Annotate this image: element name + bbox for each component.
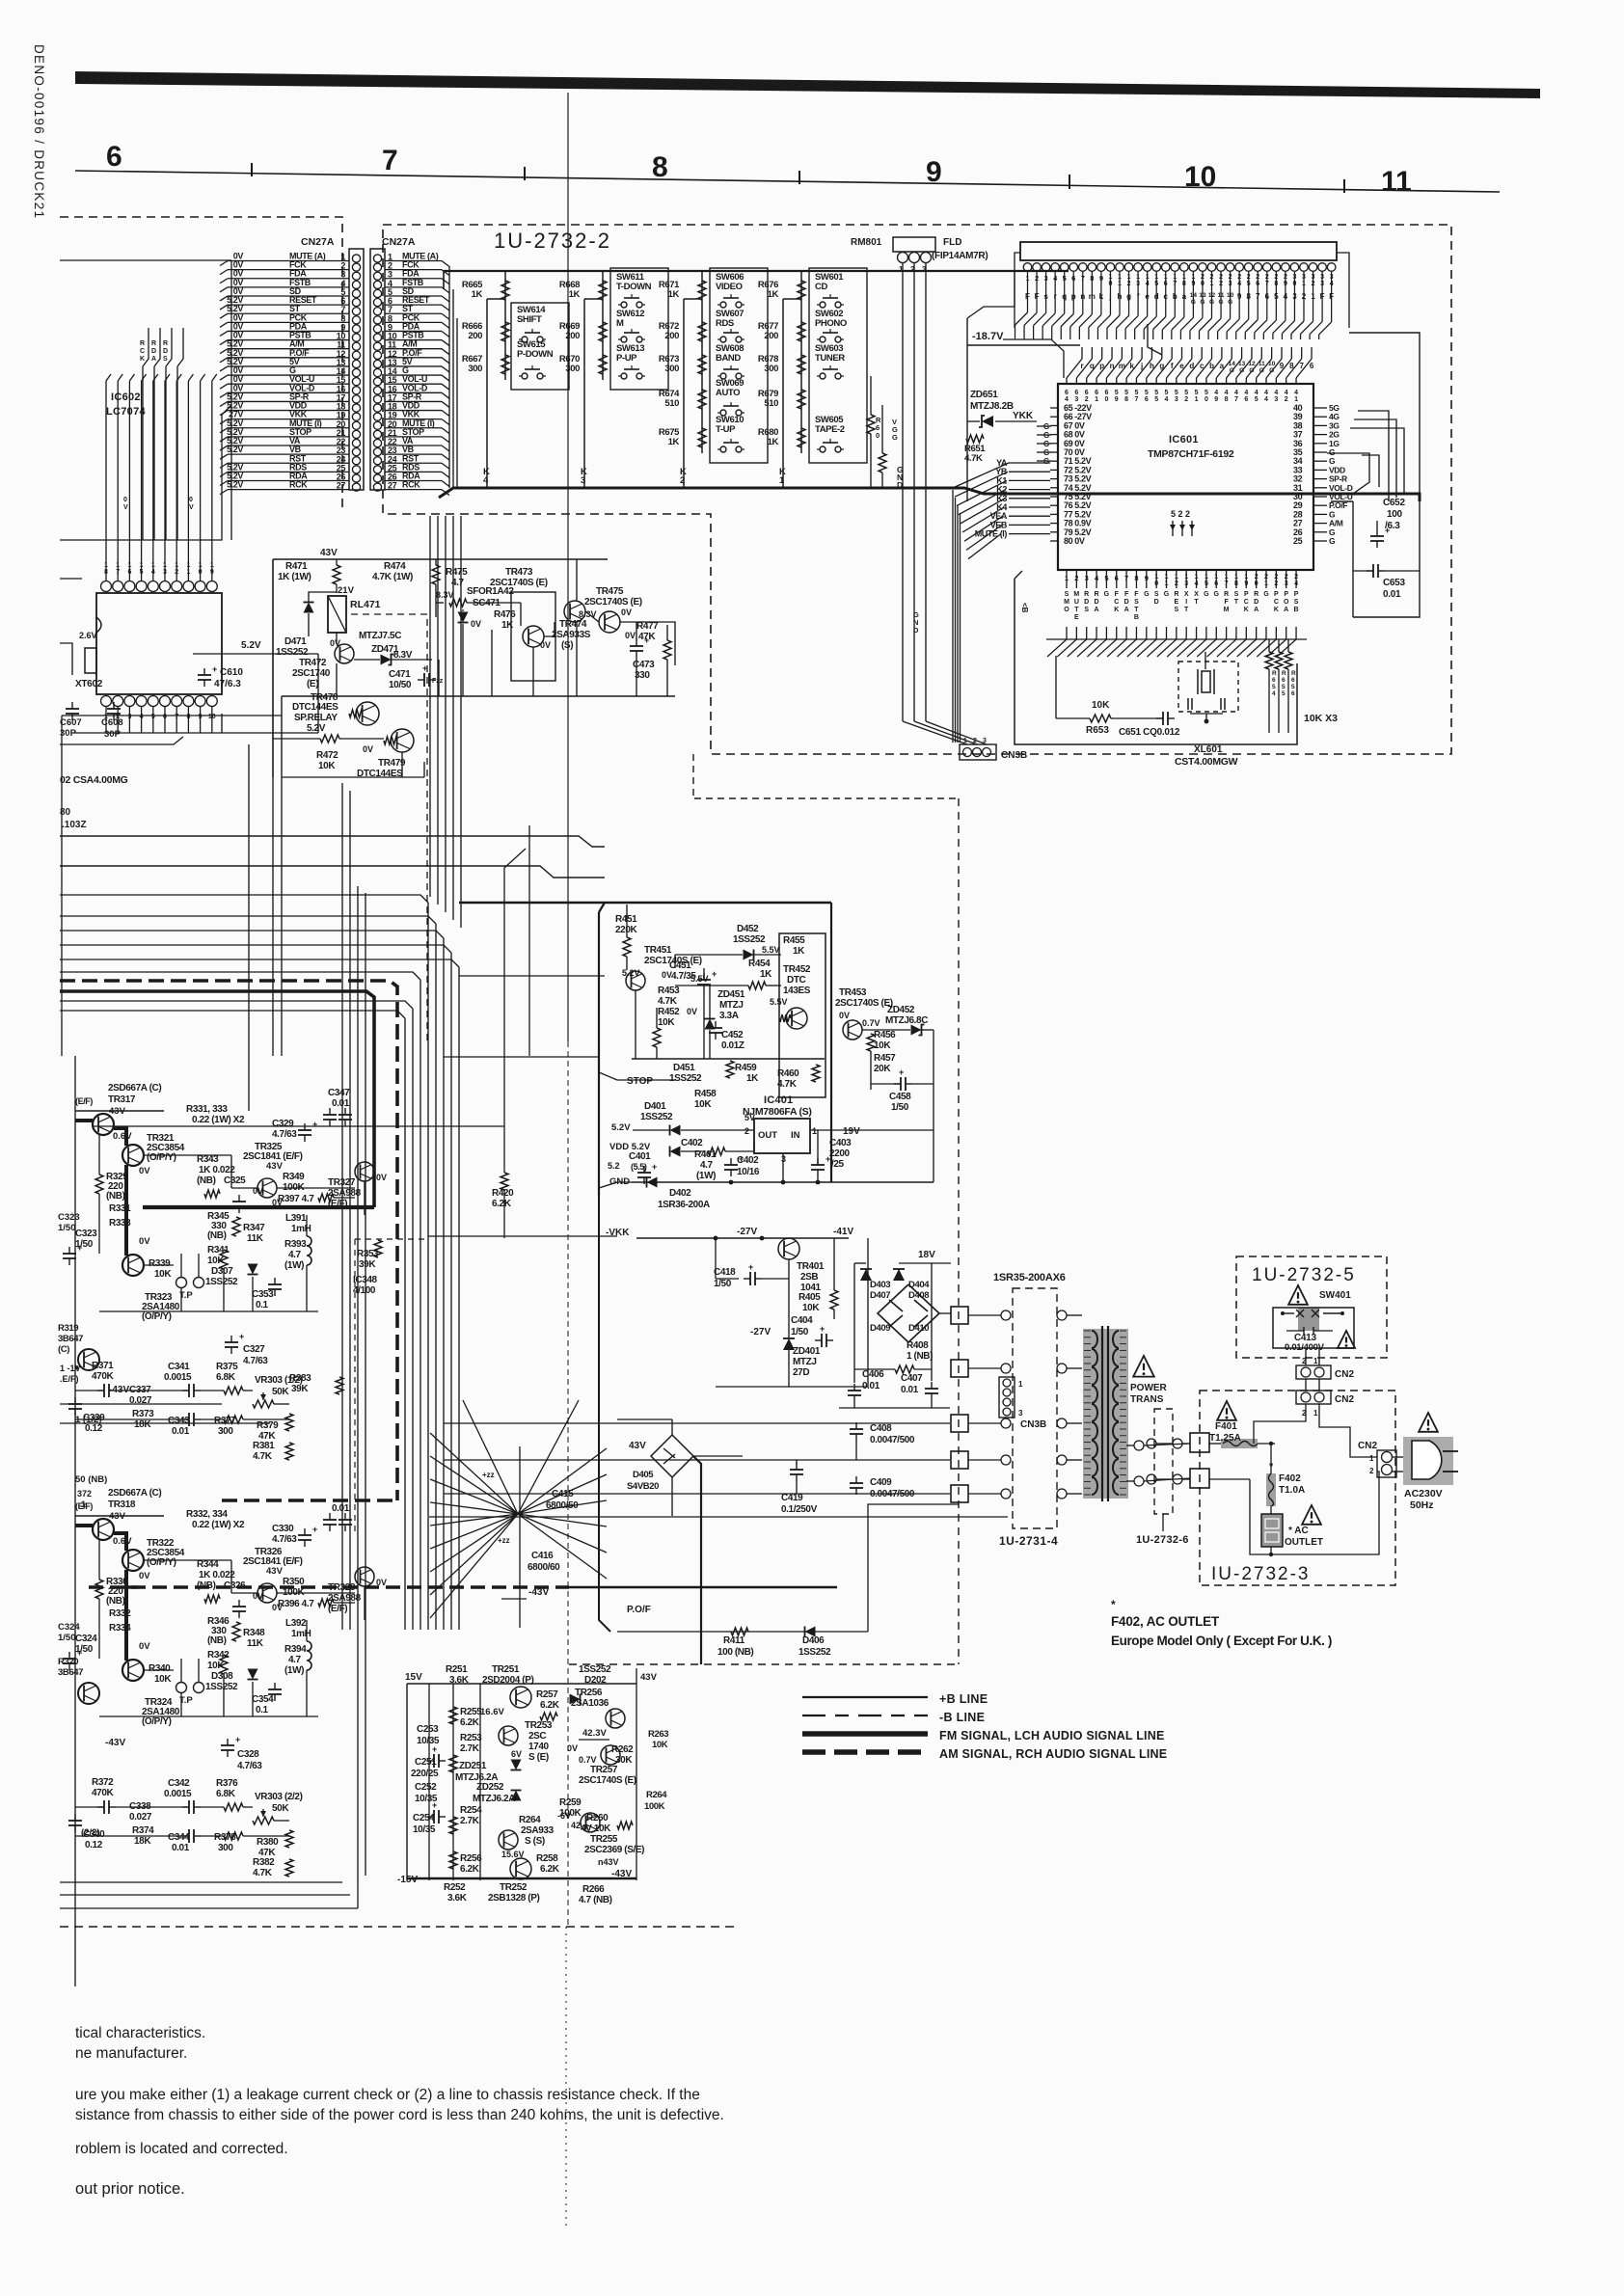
svg-text:TR453: TR453 — [839, 987, 867, 998]
svg-text:2.7K: 2.7K — [460, 1743, 480, 1754]
svg-text:R375: R375 — [216, 1362, 238, 1372]
svg-text:10: 10 — [1184, 161, 1216, 193]
svg-text:F: F — [1115, 591, 1120, 598]
svg-text:4: 4 — [1294, 390, 1298, 396]
svg-text:100 (NB): 100 (NB) — [717, 1647, 753, 1658]
test points T.P — [176, 1278, 187, 1288]
svg-text:TR253: TR253 — [525, 1720, 553, 1731]
power section mid bus — [632, 1058, 825, 1060]
svg-text:RCK: RCK — [402, 480, 420, 490]
dashed border bottom amp — [60, 1926, 738, 1928]
svg-text:E: E — [1074, 614, 1079, 621]
svg-text:+: + — [235, 1735, 240, 1744]
svg-text:0V: 0V — [376, 1173, 387, 1182]
svg-text:b: b — [1209, 362, 1214, 370]
svg-text:0V: 0V — [687, 1007, 697, 1016]
svg-text:50 (NB): 50 (NB) — [75, 1474, 107, 1485]
svg-text:C652: C652 — [1383, 498, 1405, 508]
svg-text:1K: 1K — [569, 289, 581, 300]
svg-text:+: + — [712, 969, 717, 979]
svg-text:-41V: -41V — [833, 1227, 853, 1237]
svg-text:P-UP: P-UP — [616, 353, 637, 364]
svg-text:R: R — [1291, 670, 1296, 677]
svg-text:11: 11 — [1381, 166, 1412, 198]
amp block wires — [75, 1111, 365, 1311]
svg-text:R453: R453 — [658, 986, 680, 996]
top separator bar — [75, 71, 1540, 98]
IC601 upper fan signal letters — [1080, 361, 1313, 374]
svg-text:D: D — [163, 348, 168, 355]
wire RH801 leads — [903, 262, 987, 744]
svg-text:0V: 0V — [139, 1236, 150, 1247]
svg-text:C458: C458 — [889, 1092, 911, 1102]
svg-text:6: 6 — [1244, 396, 1248, 403]
capacitor C458 1/50 — [900, 1077, 902, 1091]
svg-text:C328: C328 — [237, 1749, 259, 1760]
svg-text:A: A — [1284, 607, 1288, 613]
svg-text:2SC: 2SC — [528, 1731, 546, 1742]
svg-text:1K: 1K — [501, 620, 514, 631]
svg-text:R: R — [1084, 591, 1089, 598]
svg-text:+: + — [77, 1243, 82, 1253]
svg-text:C403: C403 — [829, 1138, 852, 1148]
svg-text:6: 6 — [1095, 390, 1098, 396]
svg-text:DTC: DTC — [787, 975, 806, 986]
svg-text:-43V: -43V — [105, 1738, 125, 1748]
svg-text:F: F — [1134, 591, 1139, 598]
svg-text:0.01: 0.01 — [332, 1098, 350, 1109]
svg-text:6: 6 — [1085, 390, 1089, 396]
svg-text:0V: 0V — [330, 638, 340, 648]
svg-text:D408: D408 — [908, 1290, 929, 1301]
svg-text:300: 300 — [764, 364, 778, 374]
svg-text:K: K — [1244, 607, 1249, 613]
svg-text:80 0V: 80 0V — [1064, 536, 1085, 546]
svg-text:P: P — [1244, 591, 1249, 598]
svg-text:5: 5 — [1291, 684, 1295, 690]
svg-text:7: 7 — [382, 145, 398, 176]
svg-text:30P: 30P — [104, 729, 122, 740]
svg-text:5: 5 — [1272, 684, 1276, 690]
transistor TR252 2SB1328 (P) — [510, 1858, 531, 1879]
svg-text:1: 1 — [1313, 1357, 1318, 1365]
svg-text:2SC1740S (E): 2SC1740S (E) — [835, 998, 893, 1009]
svg-text:M: M — [1224, 607, 1230, 613]
svg-text:4: 4 — [1214, 390, 1218, 396]
wire IC601 right wrap bus — [1148, 324, 1404, 501]
svg-text:200: 200 — [664, 331, 679, 341]
svg-text:5.2V: 5.2V — [611, 1122, 631, 1133]
svg-text:R262: R262 — [611, 1744, 634, 1755]
svg-text:6.2K: 6.2K — [460, 1717, 480, 1728]
svg-text:S: S — [1084, 607, 1089, 613]
svg-text:5: 5 — [1145, 390, 1149, 396]
svg-text:02 CSA4.00MG: 02 CSA4.00MG — [60, 774, 128, 786]
svg-text:ZD251: ZD251 — [459, 1761, 487, 1771]
svg-text:300: 300 — [468, 364, 482, 374]
svg-text:G: G — [1204, 591, 1209, 598]
transistor TR323 2SA1480 (O/P/Y) — [122, 1255, 144, 1276]
svg-text:220/25: 220/25 — [411, 1769, 439, 1779]
warning triangle AC outlet — [1302, 1505, 1321, 1525]
svg-text:6800/50: 6800/50 — [546, 1500, 579, 1511]
svg-text:D471: D471 — [284, 636, 307, 647]
svg-text:1K: 1K — [746, 1073, 759, 1084]
dashed border power board bottom — [569, 1663, 959, 1665]
wire bottom area horizontals — [60, 1404, 358, 1908]
svg-text:2.6V: 2.6V — [79, 631, 97, 640]
svg-text:S: S — [1065, 591, 1069, 598]
svg-text:1K 0.022: 1K 0.022 — [199, 1570, 235, 1580]
svg-text:VR303 (1/2): VR303 (1/2) — [255, 1375, 303, 1386]
svg-text:D: D — [897, 480, 903, 490]
svg-text:8: 8 — [1225, 396, 1229, 403]
svg-text:ure you make either (1) a leak: ure you make either (1) a leakage curren… — [75, 2087, 700, 2103]
svg-text:0.6V: 0.6V — [113, 1536, 132, 1547]
svg-text:TR251: TR251 — [492, 1664, 520, 1675]
svg-text:R471: R471 — [285, 561, 308, 572]
svg-text:D: D — [1124, 599, 1129, 606]
svg-text:+B LINE: +B LINE — [939, 1692, 988, 1706]
svg-text:S4VB20: S4VB20 — [627, 1481, 659, 1492]
svg-text:(E/F): (E/F) — [328, 1604, 347, 1614]
svg-text:TMP87CH71F-6192: TMP87CH71F-6192 — [1148, 448, 1234, 460]
svg-text:5.5V: 5.5V — [762, 945, 780, 955]
svg-text:43V: 43V — [629, 1441, 646, 1451]
svg-text:roblem is located and correcte: roblem is located and corrected. — [75, 2141, 288, 2157]
svg-text:V: V — [189, 504, 194, 511]
svg-text:1: 1 — [1294, 396, 1298, 403]
svg-text:D407: D407 — [870, 1290, 890, 1301]
svg-text:16.6V: 16.6V — [480, 1707, 504, 1717]
svg-text:1U-2732-6: 1U-2732-6 — [1136, 1534, 1189, 1546]
svg-text:RM801: RM801 — [851, 237, 882, 248]
svg-text:6.8K: 6.8K — [216, 1372, 236, 1383]
svg-text:R411: R411 — [723, 1635, 745, 1646]
svg-text:0.027: 0.027 — [129, 1812, 152, 1823]
svg-text:IC602: IC602 — [111, 392, 141, 403]
AC mains plug symbol — [1403, 1437, 1453, 1485]
svg-text:1U-2732-2: 1U-2732-2 — [494, 229, 611, 253]
wire right rail of IC601 region — [1327, 333, 1420, 617]
svg-text:1/50: 1/50 — [714, 1279, 732, 1289]
svg-text:(NB): (NB) — [207, 1635, 227, 1646]
svg-text:TR327: TR327 — [328, 1177, 356, 1188]
svg-text:c: c — [1200, 362, 1204, 370]
wire bus vertical cluster — [342, 873, 459, 1882]
wires relay right — [436, 559, 675, 696]
svg-text:6V: 6V — [511, 1749, 522, 1759]
svg-text:+: + — [432, 1744, 437, 1754]
svg-text:R332, 334: R332, 334 — [186, 1509, 228, 1520]
IC601 right pin rows — [1293, 403, 1353, 546]
svg-text:E: E — [1175, 599, 1179, 606]
svg-text:YKK: YKK — [1013, 411, 1034, 421]
legend AM SIGNAL RCH AUDIO SIGNAL LINE — [802, 1749, 928, 1755]
wires TR401 area — [714, 1236, 868, 1387]
legend +B LINE — [802, 1696, 928, 1698]
svg-text:1SS252: 1SS252 — [640, 1112, 673, 1122]
svg-text:2SA933: 2SA933 — [521, 1825, 555, 1836]
star node wire fan — [430, 1400, 607, 1618]
svg-text:R474: R474 — [384, 561, 406, 572]
svg-text:B: B — [1294, 607, 1299, 613]
svg-text:D403: D403 — [870, 1280, 890, 1290]
svg-text:4: 4 — [1225, 390, 1229, 396]
svg-text:5: 5 — [1134, 390, 1138, 396]
svg-text:5.2V: 5.2V — [307, 723, 326, 734]
svg-text:1mH: 1mH — [291, 1629, 311, 1639]
svg-text:K: K — [140, 356, 145, 363]
resistor R601 10K (vertical) — [867, 415, 875, 434]
svg-text:TR252: TR252 — [500, 1882, 528, 1893]
svg-text:R: R — [1095, 591, 1099, 598]
svg-text:2.7K: 2.7K — [460, 1816, 480, 1826]
left signal fan YA YB K1-K4 VEA VEB MUTE — [953, 458, 1050, 559]
svg-text:K: K — [1274, 607, 1279, 613]
svg-text:R380: R380 — [257, 1837, 279, 1848]
svg-text:2: 2 — [1184, 396, 1188, 403]
IC601 body — [1058, 384, 1313, 570]
svg-text:4: 4 — [1272, 690, 1276, 697]
svg-text:(FIP14AM7R): (FIP14AM7R) — [932, 251, 988, 261]
svg-text:10K: 10K — [652, 1740, 668, 1750]
capacitor C651 CQ0.012 — [1162, 712, 1164, 725]
wire P.O/F line with R411 and D406 — [617, 1631, 868, 1633]
svg-text:6: 6 — [1272, 677, 1276, 684]
svg-text:C347: C347 — [328, 1088, 350, 1098]
svg-text:11K: 11K — [247, 1233, 264, 1244]
svg-text:+: + — [739, 1154, 744, 1164]
svg-text:S (S): S (S) — [525, 1836, 545, 1847]
svg-text:-43V: -43V — [611, 1869, 632, 1879]
svg-text:2: 2 — [1285, 396, 1288, 403]
svg-text:1SS252: 1SS252 — [205, 1682, 238, 1692]
svg-text:(E): (E) — [307, 679, 318, 689]
svg-text:2: 2 — [680, 475, 685, 486]
svg-text:R475: R475 — [446, 567, 468, 578]
svg-text:5: 5 — [1165, 390, 1169, 396]
filter row wires — [75, 1807, 289, 1836]
svg-text:ZD401: ZD401 — [793, 1346, 821, 1357]
svg-text:R372: R372 — [92, 1777, 114, 1788]
svg-text:P: P — [1294, 591, 1299, 598]
svg-text:(1W): (1W) — [284, 1665, 304, 1676]
svg-text:0.12: 0.12 — [85, 1840, 103, 1850]
svg-text:R: R — [1224, 591, 1229, 598]
svg-text:0V: 0V — [139, 1166, 150, 1176]
svg-text:0.01: 0.01 — [172, 1843, 190, 1853]
svg-text:O: O — [1284, 599, 1289, 606]
wire heavy vertical right of star — [693, 1456, 701, 1664]
svg-text:6.2K: 6.2K — [492, 1199, 512, 1209]
svg-text:2: 2 — [1369, 1467, 1374, 1475]
warning triangle POWER TRANS — [1133, 1356, 1154, 1377]
svg-text:0V: 0V — [139, 1641, 150, 1652]
IC602 top pin circles — [101, 374, 218, 592]
svg-text:R374: R374 — [132, 1825, 154, 1836]
svg-text:FLD: FLD — [943, 237, 961, 248]
relay section mid rail — [282, 695, 675, 697]
capacitor C413 0.01/400V — [1303, 1327, 1305, 1335]
svg-text:0.01: 0.01 — [862, 1381, 880, 1391]
svg-text:143ES: 143ES — [783, 986, 811, 996]
upper amp extra thick bus — [143, 1205, 374, 1209]
svg-text:3B647: 3B647 — [58, 1667, 83, 1678]
wires between CN2 pairs — [1305, 1348, 1307, 1365]
svg-text:5: 5 — [1255, 396, 1259, 403]
svg-text:0: 0 — [189, 497, 193, 503]
svg-text:R263: R263 — [648, 1729, 668, 1740]
svg-text:4.7K: 4.7K — [253, 1868, 273, 1878]
wire horizontals to power section — [428, 976, 617, 1236]
svg-text:F402: F402 — [1279, 1473, 1301, 1484]
svg-text:(O/P/Y): (O/P/Y) — [142, 1716, 172, 1727]
svg-text:0V: 0V — [625, 631, 636, 640]
svg-text:(1W): (1W) — [696, 1171, 716, 1181]
svg-text:2: 2 — [744, 1126, 749, 1136]
svg-text:D308: D308 — [211, 1671, 233, 1682]
svg-text:4.7/63: 4.7/63 — [272, 1534, 297, 1545]
svg-text:R347: R347 — [243, 1223, 265, 1233]
svg-text:P: P — [1274, 591, 1279, 598]
svg-text:27D: 27D — [793, 1367, 809, 1378]
svg-text:5.2V: 5.2V — [241, 640, 261, 651]
svg-text:(E/F): (E/F) — [75, 1096, 93, 1106]
svg-text:0.0047/500: 0.0047/500 — [870, 1435, 915, 1445]
svg-text:0.6V: 0.6V — [113, 1131, 132, 1142]
svg-text:6.8K: 6.8K — [216, 1789, 236, 1799]
svg-text:S: S — [1294, 599, 1299, 606]
svg-text:C404: C404 — [791, 1315, 813, 1326]
svg-text:2SC1740S (E): 2SC1740S (E) — [579, 1775, 636, 1786]
svg-text:MTZJ: MTZJ — [793, 1357, 817, 1367]
svg-text:TR257: TR257 — [590, 1765, 618, 1775]
board 1U-2731-4 dashed outline — [1013, 1288, 1057, 1528]
svg-text:+: + — [899, 1067, 904, 1077]
svg-text:3: 3 — [581, 475, 585, 486]
svg-text:T1.0A: T1.0A — [1279, 1485, 1305, 1496]
svg-text:IC401: IC401 — [764, 1094, 793, 1106]
svg-text:0.1: 0.1 — [256, 1300, 269, 1310]
svg-text:10/16: 10/16 — [737, 1167, 760, 1177]
svg-text:1mH: 1mH — [291, 1224, 311, 1234]
svg-text:0.22 (1W) X2: 0.22 (1W) X2 — [192, 1115, 245, 1125]
svg-text:4.7: 4.7 — [700, 1160, 714, 1171]
switch matrix column rail 1 — [504, 271, 506, 380]
svg-text:R266: R266 — [582, 1884, 605, 1895]
svg-text:S: S — [1234, 591, 1239, 598]
svg-text:10/35: 10/35 — [413, 1824, 436, 1835]
ruler tick 8-9 — [798, 171, 800, 184]
svg-text:A: A — [151, 356, 156, 363]
svg-text:1K: 1K — [760, 969, 772, 980]
svg-text:1SR36-200A: 1SR36-200A — [658, 1200, 710, 1210]
svg-text:M: M — [616, 318, 624, 329]
svg-text:13: 13 — [1238, 361, 1246, 367]
svg-text:6: 6 — [1074, 390, 1078, 396]
svg-text:R476: R476 — [494, 609, 516, 620]
svg-text:M: M — [1073, 591, 1079, 598]
transistor TR324 2SA1480 (O/P/Y) — [122, 1660, 144, 1681]
svg-text:4.7: 4.7 — [288, 1655, 302, 1665]
svg-text:50Hz: 50Hz — [1410, 1499, 1434, 1511]
svg-text:IC601: IC601 — [1169, 434, 1199, 446]
svg-text:r: r — [1080, 362, 1083, 370]
svg-text:TUNER: TUNER — [815, 353, 845, 364]
svg-text:TR452: TR452 — [783, 964, 811, 975]
svg-text:TR472: TR472 — [299, 658, 327, 668]
svg-text:LC7074: LC7074 — [106, 406, 147, 418]
svg-text:q: q — [1090, 362, 1095, 370]
svg-text:T: T — [1134, 607, 1139, 613]
svg-text:4.7K: 4.7K — [253, 1451, 273, 1462]
svg-text:1SS252: 1SS252 — [205, 1277, 238, 1287]
svg-text:4: 4 — [1285, 390, 1288, 396]
svg-text:2SD667A (C): 2SD667A (C) — [108, 1083, 161, 1094]
switch matrix column rail 2 — [602, 271, 604, 380]
power section bottom bus — [632, 1181, 934, 1183]
svg-text:8: 8 — [1289, 362, 1294, 370]
svg-text:6.2K: 6.2K — [460, 1864, 480, 1875]
svg-text:(NB): (NB) — [207, 1230, 227, 1241]
svg-text:TRANS: TRANS — [1130, 1394, 1164, 1405]
wire star cross lines — [429, 1446, 1008, 1628]
svg-text:(2/2): (2/2) — [81, 1827, 100, 1838]
svg-text:5 2 2: 5 2 2 — [1171, 509, 1190, 519]
svg-text:<B: <B — [1020, 603, 1029, 613]
svg-text:5: 5 — [1282, 690, 1286, 697]
svg-text:18V: 18V — [918, 1250, 935, 1260]
svg-text:D451: D451 — [673, 1063, 695, 1073]
FLD pin numbers — [1025, 274, 1333, 287]
svg-text:15V: 15V — [405, 1672, 422, 1683]
svg-text:R376: R376 — [216, 1778, 238, 1789]
svg-text:14: 14 — [1229, 361, 1236, 367]
svg-text:300: 300 — [565, 364, 580, 374]
svg-text:300: 300 — [218, 1843, 233, 1853]
svg-text:d: d — [1189, 362, 1194, 370]
G pin labels column — [1037, 422, 1051, 466]
svg-text:C401: C401 — [629, 1151, 651, 1162]
svg-text:2SD667A (C): 2SD667A (C) — [108, 1488, 161, 1499]
svg-text:R371: R371 — [92, 1361, 114, 1371]
svg-text:4: 4 — [1244, 390, 1248, 396]
svg-text:D: D — [1254, 599, 1259, 606]
svg-text:R256: R256 — [460, 1853, 482, 1864]
svg-text:CN2: CN2 — [1335, 1394, 1354, 1405]
capacitor C653 0.01 — [1372, 564, 1374, 578]
svg-text:2SC1740S (E): 2SC1740S (E) — [584, 597, 642, 608]
svg-text:3: 3 — [1274, 396, 1278, 403]
svg-text:S: S — [163, 356, 168, 363]
svg-text:D406: D406 — [802, 1635, 825, 1646]
svg-text:8.3V: 8.3V — [436, 590, 454, 600]
svg-text:5: 5 — [1154, 396, 1158, 403]
svg-text:(1W): (1W) — [284, 1260, 304, 1271]
svg-text:D: D — [1154, 599, 1159, 606]
svg-text:5: 5 — [1154, 390, 1158, 396]
svg-text:R: R — [1282, 670, 1286, 677]
svg-text:U: U — [1074, 599, 1079, 606]
svg-text:1SS252: 1SS252 — [733, 934, 766, 945]
svg-text:C610: C610 — [220, 667, 243, 678]
svg-text:10K: 10K — [1092, 700, 1110, 711]
svg-text:n: n — [1110, 362, 1115, 370]
connector CN27A right half pins — [385, 252, 449, 496]
wires relay section — [62, 660, 439, 777]
svg-text:10K: 10K — [207, 1256, 225, 1266]
